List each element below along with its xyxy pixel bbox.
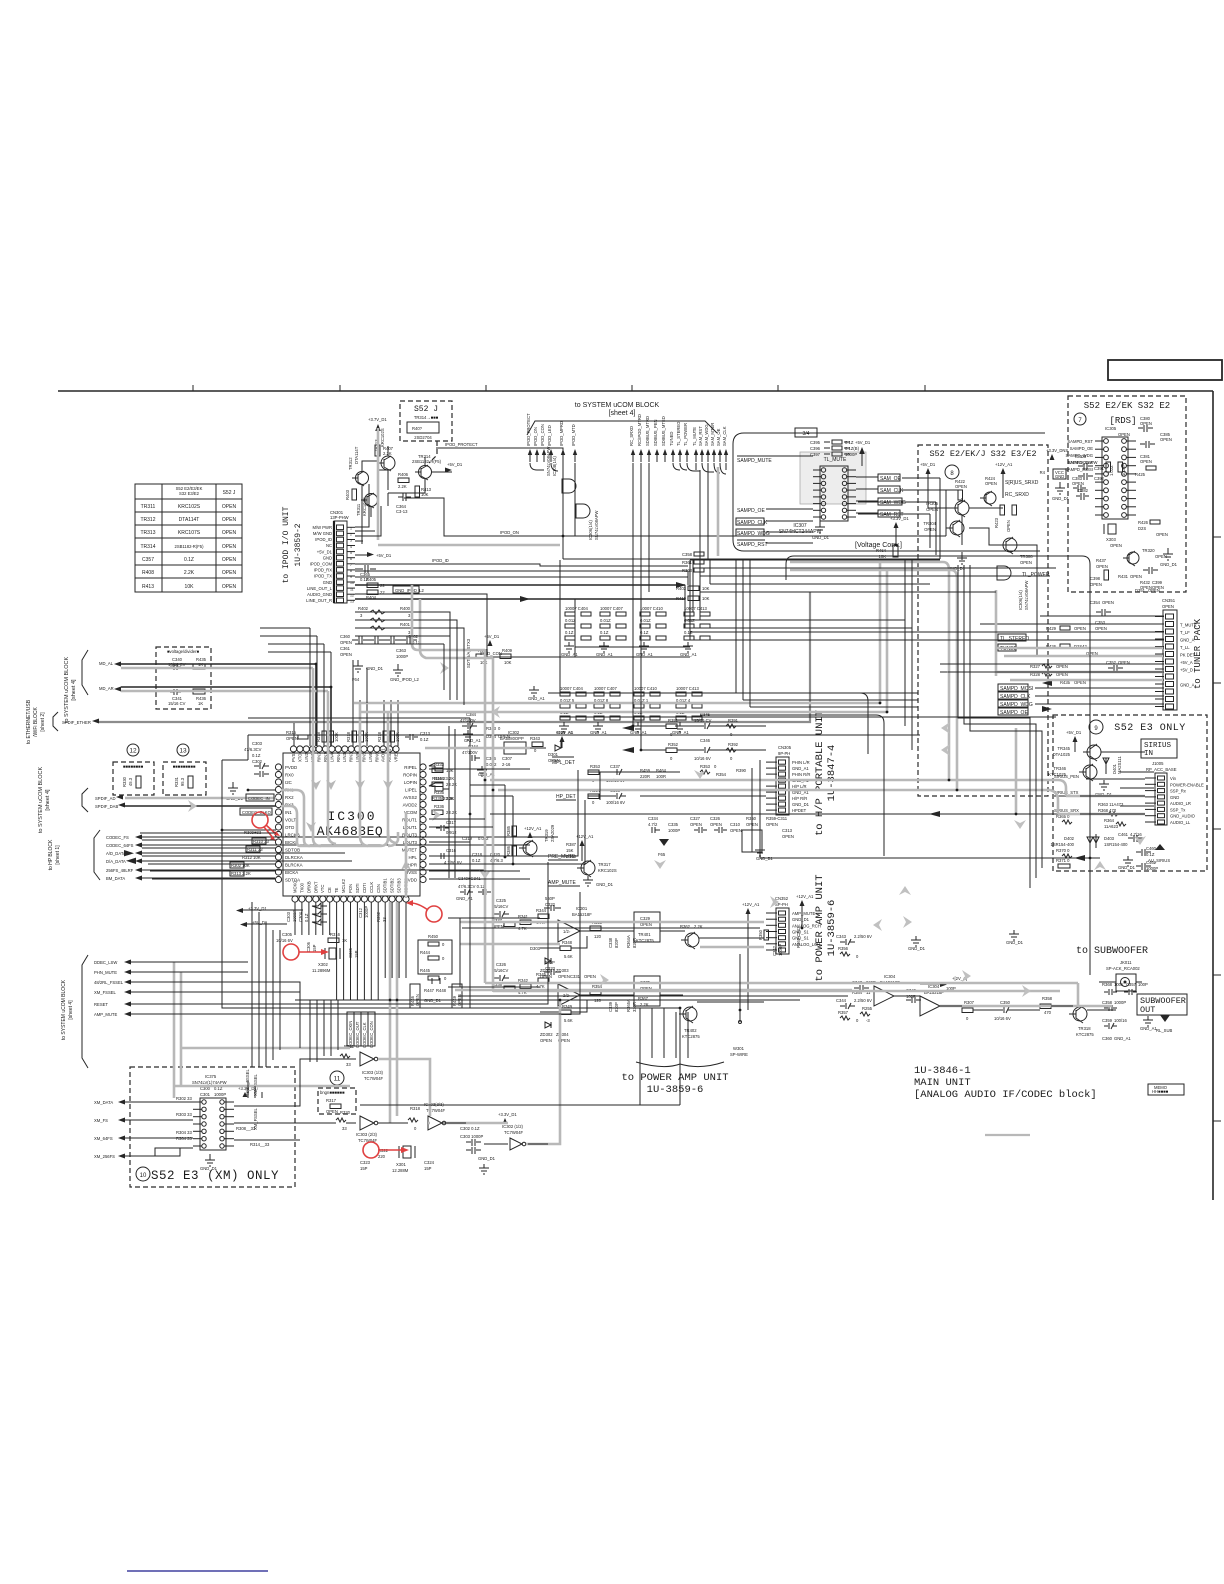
- svg-text:SIRIUS_PEN: SIRIUS_PEN: [1054, 774, 1079, 779]
- dashed option box R330: [113, 762, 154, 795]
- grey from +3.7 rail to right: [378, 544, 560, 547]
- svg-text:[RDS]: [RDS]: [1109, 416, 1136, 426]
- svg-text:OPEN: OPEN: [222, 584, 237, 590]
- +5V_D1 arrow sirius: [1066, 730, 1082, 752]
- svg-text:BICKA: BICKA: [285, 870, 298, 875]
- svg-text:RC/IPOD_MTRD: RC/IPOD_MTRD: [637, 414, 642, 446]
- transistor TR304: [923, 520, 964, 537]
- dashed box S52 E2/EK S32 E2 RDS: [1068, 396, 1186, 592]
- IC300 left pins: [275, 764, 281, 883]
- svg-text:R363: R363: [682, 568, 693, 573]
- svg-text:10007 C410: 10007 C410: [634, 686, 657, 691]
- svg-text:D301: D301: [548, 752, 559, 757]
- svg-text:OPEN: OPEN: [1096, 564, 1108, 569]
- svg-text:GND_A1: GND_A1: [556, 730, 573, 735]
- svg-text:33: 33: [342, 1126, 347, 1131]
- svg-text:GND_A1: GND_A1: [680, 652, 697, 657]
- svg-text:IPOD_ON: IPOD_ON: [533, 427, 538, 446]
- resistor stack right of IC300 R333: [432, 762, 457, 815]
- svg-text:10007 C404: 10007 C404: [560, 686, 583, 691]
- AND gate IC306 1/4: [576, 504, 599, 540]
- caps clusters mid C404 area: [556, 686, 702, 735]
- leads ipod arrow group: [530, 463, 575, 536]
- power amp dark rail pair: [458, 928, 848, 996]
- grey bus: xm area horizontals: [174, 1048, 350, 1086]
- svg-text:R354: R354: [716, 772, 727, 777]
- svg-text:OPEN: OPEN: [222, 504, 237, 510]
- transistor TR313 KRC102S: [374, 428, 395, 471]
- svg-text:DTA114T: DTA114T: [179, 517, 200, 523]
- left callout HP BLOCK sheet1: [48, 830, 142, 881]
- svg-text:R343: R343: [530, 736, 541, 741]
- svg-text:2-16: 2-16: [502, 762, 511, 767]
- curved leads group TUNED..SAM_CLK: [673, 463, 726, 560]
- net label SAMPD_WDG: [736, 529, 770, 537]
- svg-text:VTC: VTC: [320, 885, 325, 893]
- svg-text:48/2RL_FSSEL: 48/2RL_FSSEL: [94, 980, 124, 985]
- svg-text:R343: R343: [486, 726, 497, 731]
- +12V_A1 arrow: [995, 462, 1013, 495]
- svg-text:[sheet 4]: [sheet 4]: [609, 410, 636, 417]
- svg-text:GND_D1: GND_D1: [812, 535, 830, 540]
- text 1U-3846-1 MAIN UNIT: [914, 1065, 1097, 1101]
- svg-text:+3.3V_D1: +3.3V_D1: [890, 516, 909, 521]
- svg-text:ZD304: ZD304: [556, 1032, 569, 1037]
- svg-text:SP-ACK_RCA002: SP-ACK_RCA002: [1106, 966, 1140, 971]
- svg-text:C354: C354: [1090, 600, 1101, 605]
- svg-text:OPEN: OPEN: [1156, 532, 1168, 537]
- svg-text:CCLK: CCLK: [369, 882, 374, 893]
- svg-text:GND_D1: GND_D1: [792, 917, 810, 922]
- net label SAMPD_MUTE: [737, 456, 772, 464]
- verticals joining band: [690, 560, 710, 640]
- svg-text:R464: R464: [876, 548, 887, 553]
- svg-text:R410: R410: [676, 596, 687, 601]
- svg-text:OPEN: OPEN: [222, 557, 237, 563]
- svg-text:LIN6: LIN6: [368, 752, 373, 762]
- svg-text:GND_D1: GND_D1: [792, 802, 810, 807]
- pin number ticks CN301: [350, 527, 354, 604]
- svg-text:C382: C382: [1078, 488, 1089, 493]
- svg-text:10007 C407: 10007 C407: [594, 686, 617, 691]
- svg-text:R400: R400: [400, 606, 411, 611]
- svg-text:SAMPD_RST: SAMPD_RST: [1067, 439, 1093, 444]
- svg-text:2.2K: 2.2K: [383, 451, 392, 456]
- wire SPDIF_AD grey: [125, 797, 276, 800]
- dashed box R317 OPEN: [318, 1088, 356, 1114]
- to IPOD I/O UNIT label: [282, 506, 303, 583]
- svg-text:SDTI: SDTI: [355, 883, 360, 893]
- transistor TR307 circle small: [980, 491, 996, 506]
- svg-text:GND_D1: GND_D1: [1052, 496, 1070, 501]
- R353 C337 row: [588, 764, 747, 783]
- svg-text:OPEN: OPEN: [1140, 459, 1152, 464]
- svg-text:OPEN: OPEN: [1148, 588, 1160, 593]
- svg-text:TL_MUTE: TL_MUTE: [824, 457, 847, 463]
- ground GND_D1 near note boxes: [226, 782, 244, 801]
- svg-text:0.012: 0.012: [486, 762, 497, 767]
- vertical dark pair right top: [930, 478, 946, 559]
- wire right edge drop from table wires: [560, 560, 690, 657]
- svg-text:CODEC_CLK: CODEC_CLK: [362, 1022, 367, 1048]
- svg-text:OPEN: OPEN: [766, 822, 778, 827]
- svg-text:R316: R316: [330, 932, 341, 937]
- wire SPDIF_ETHER: [99, 592, 810, 722]
- horizontals feeding verticals above chip: [260, 628, 331, 652]
- wire 48fs down: [248, 1080, 262, 1098]
- wire LINE_OUT_R long: [355, 598, 685, 600]
- dashed wire from S52J box to TR314: [429, 441, 437, 463]
- svg-text:KTC2875: KTC2875: [636, 938, 654, 943]
- grey bus: amp to CN352 lower pin: [700, 946, 764, 949]
- CODEC rotated net labels under chip: [347, 1012, 375, 1048]
- svg-text:0.1Z: 0.1Z: [420, 737, 429, 742]
- dark feeds from IC307 to right: [858, 478, 946, 514]
- svg-text:0.01Z: 0.01Z: [640, 618, 651, 623]
- wires IPOD_RX / IPOD_TX: [355, 571, 688, 585]
- wires under chip to components: [295, 902, 406, 1000]
- grey chevrons right of hp rows: [941, 722, 950, 756]
- note circle 13: [177, 744, 189, 756]
- svg-text:SAM_CLK: SAM_CLK: [722, 426, 727, 446]
- IC300 bottom pin labels: [293, 878, 409, 893]
- svg-text:NC: NC: [326, 543, 332, 548]
- svg-text:R364: R364: [1104, 818, 1115, 823]
- svg-text:15P: 15P: [424, 1166, 432, 1171]
- caps right of IC300 C317 C319: [436, 820, 503, 901]
- svg-text:+5V_D1: +5V_D1: [376, 553, 392, 558]
- svg-text:C344: C344: [836, 998, 847, 1003]
- black arrows into R351/R352: [622, 725, 634, 753]
- svg-text:D/A_DATA: D/A_DATA: [106, 859, 126, 864]
- svg-text:IC306(1/4): IC306(1/4): [1018, 590, 1023, 610]
- junction dots: [221, 535, 1092, 1012]
- svg-text:GND_S1: GND_S1: [792, 936, 809, 941]
- svg-text:10007 C413: 10007 C413: [684, 606, 707, 611]
- svg-text:W301: W301: [733, 1046, 745, 1051]
- svg-text:1K: 1K: [198, 701, 203, 706]
- svg-text:LOPIN: LOPIN: [404, 780, 417, 785]
- svg-text:CODEC_FS: CODEC_FS: [106, 835, 129, 840]
- svg-text:R304 33: R304 33: [176, 1130, 193, 1135]
- grey riser inside voltage area: [717, 467, 720, 556]
- svg-text:S52 E2/EK/J S32 E3/E2: S52 E2/EK/J S32 E3/E2: [929, 449, 1036, 459]
- R354 120 + caps lower: [590, 984, 637, 1012]
- svg-text:OPEN: OPEN: [498, 734, 510, 739]
- svg-text:IC308(1/4): IC308(1/4): [552, 456, 557, 476]
- wire MD_AR grey shadow: [121, 690, 328, 693]
- svg-text:AUDIO_LL: AUDIO_LL: [1170, 820, 1191, 825]
- svg-text:GND: GND: [323, 580, 332, 585]
- transistor TR346: [1048, 764, 1097, 781]
- svg-text:CN352: CN352: [775, 896, 789, 901]
- svg-text:IPOD_COM: IPOD_COM: [310, 562, 333, 567]
- svg-text:IC306(1/4): IC306(1/4): [588, 520, 593, 540]
- svg-text:1U-3859-6: 1U-3859-6: [826, 900, 838, 957]
- svg-text:C302 0.1Z: C302 0.1Z: [460, 1126, 480, 1131]
- capacitor C364: [396, 493, 411, 514]
- svg-text:OPEN: OPEN: [1074, 626, 1086, 631]
- cap C382: [1076, 488, 1089, 500]
- +3.3V_D1 arrow right: [498, 1112, 517, 1124]
- svg-text:R320: R320: [340, 1110, 351, 1115]
- dashed box S52 E2/EK/J S32 E3/E2: [918, 445, 1048, 796]
- R315 OPEN above chip: [286, 730, 308, 741]
- grey bus: left entries into chip: [281, 790, 310, 846]
- svg-text:DRXB: DRXB: [306, 881, 311, 893]
- svg-text:95.3: 95.3: [180, 777, 185, 786]
- svg-text:C461: C461: [1118, 832, 1129, 837]
- wire band mid-right horizontals: [690, 560, 1056, 592]
- svg-text:470: 470: [1044, 1010, 1052, 1015]
- R316 1K + X302 crystal: [306, 932, 359, 973]
- grey mark line above stamp: [985, 1134, 1030, 1136]
- svg-text:AMP_MUTE: AMP_MUTE: [94, 1012, 117, 1017]
- svg-text:ROPIN: ROPIN: [403, 772, 417, 777]
- wire vertical drop from hp region: [752, 760, 760, 858]
- svg-text:GND: GND: [1055, 474, 1064, 479]
- title block box top right: [1108, 360, 1222, 380]
- CN301 pin wires to transistor cluster: [355, 484, 381, 541]
- svg-text:10007 C413: 10007 C413: [676, 686, 699, 691]
- svg-text:[ANALOG AUDIO IF/CODEC block]: [ANALOG AUDIO IF/CODEC block]: [914, 1089, 1097, 1101]
- svg-text:100K: 100K: [334, 732, 339, 742]
- grey bus: sirius vertical: [1015, 728, 1018, 814]
- dark drop verticals to amp: [505, 785, 513, 864]
- verticals from SAMPD box left edge down: [736, 560, 750, 707]
- parts under TR320: [1090, 558, 1164, 590]
- svg-text:4.7/2: 4.7/2: [648, 822, 658, 827]
- svg-text:IPOD_PROTECT: IPOD_PROTECT: [445, 442, 478, 447]
- svg-text:IPOD_MPRD: IPOD_MPRD: [559, 421, 564, 446]
- svg-text:TC7W04F: TC7W04F: [364, 1076, 384, 1081]
- grey bus: sirius horizontals: [1050, 780, 1145, 814]
- svg-text:15/16CV: 15/16CV: [492, 904, 509, 909]
- wire hp lower joins: [588, 772, 766, 800]
- labels PRE_MUTE AMP_MUTE: [548, 854, 580, 886]
- svg-text:to SYSTEM uCOM BLOCK: to SYSTEM uCOM BLOCK: [575, 402, 660, 409]
- connector CN301 13P: [306, 510, 355, 603]
- svg-text:15/16CV: 15/16CV: [492, 968, 509, 973]
- svg-text:C398: C398: [1090, 576, 1101, 581]
- R408 R409 10K pair above chip: [466, 634, 513, 668]
- svg-text:100/16: 100/16: [1114, 1018, 1127, 1023]
- RDS signal labels: [1065, 439, 1093, 472]
- svg-text:R361: R361: [682, 560, 693, 565]
- resistor R403: [345, 489, 357, 500]
- svg-text:15P: 15P: [360, 1166, 368, 1171]
- caps row under chip C303/C304: [286, 903, 327, 925]
- svg-text:ROUT1: ROUT1: [402, 817, 417, 822]
- transistor TR312 DTA114T: [348, 446, 369, 486]
- svg-text:OPEN: OPEN: [1090, 582, 1102, 587]
- svg-text:C334: C334: [648, 816, 659, 821]
- svg-text:IPOD_PROTECT: IPOD_PROTECT: [526, 413, 531, 446]
- svg-text:C326: C326: [496, 962, 507, 967]
- parts table: [135, 484, 242, 592]
- IC300 right pins: [420, 764, 426, 883]
- svg-text:KRC102S: KRC102S: [362, 497, 367, 516]
- wire MD_AR: [121, 687, 331, 746]
- svg-text:GND_A1: GND_A1: [1114, 1036, 1131, 1041]
- power amp output vertical bundle: [640, 1008, 688, 1058]
- grey bus: right riser to ROUT pins: [388, 832, 398, 846]
- svg-text:1U-3847-4: 1U-3847-4: [826, 745, 838, 802]
- capacitor clusters C404-C415 row1: [561, 606, 710, 657]
- svg-text:C337: C337: [610, 764, 621, 769]
- svg-text:C339: C339: [608, 1001, 613, 1012]
- svg-text:1000P: 1000P: [1146, 866, 1158, 871]
- ground AU_SIRIUS: [1148, 844, 1170, 863]
- svg-text:to ETHERNET/USB: to ETHERNET/USB: [26, 699, 32, 744]
- svg-text:R364A: R364A: [626, 935, 631, 948]
- svg-text:X303: X303: [1106, 537, 1116, 542]
- svg-text:R336: R336: [434, 804, 445, 809]
- power rail loop around IC300: [222, 735, 920, 1008]
- R354 C336 row: [556, 788, 626, 805]
- svg-text:PON: PON: [348, 884, 353, 893]
- svg-text:XTO: XTO: [297, 753, 302, 762]
- circled 11: [330, 1071, 344, 1085]
- svg-text:F65: F65: [658, 852, 666, 857]
- svg-text:5: 5: [350, 551, 352, 555]
- svg-text:C358: C358: [1102, 1000, 1113, 1005]
- svg-text:GND_A1: GND_A1: [596, 652, 613, 657]
- svg-text:C313: C313: [782, 828, 793, 833]
- signal arrows bundle with rotated labels: [526, 413, 728, 462]
- extra step wires top center: [575, 599, 690, 647]
- svg-text:R390: R390: [736, 768, 747, 773]
- svg-text:TR402: TR402: [684, 1028, 697, 1033]
- resistor R364: [1104, 818, 1126, 829]
- inverter IC303 2/3: [336, 1110, 378, 1143]
- svg-text:[sheet 4]: [sheet 4]: [68, 1000, 74, 1020]
- R423 R425 vertical resistors: [994, 505, 1017, 532]
- container corner top left: [786, 556, 794, 580]
- svg-text:R327: R327: [1030, 664, 1041, 669]
- svg-text:OPEN: OPEN: [1102, 600, 1114, 605]
- svg-text:DLRCKA: DLRCKA: [285, 855, 303, 860]
- svg-text:TC7W04F: TC7W04F: [504, 1130, 524, 1135]
- label 3/4 box: [795, 428, 817, 437]
- svg-text:OPEN: OPEN: [222, 544, 237, 550]
- svg-text:TE: TE: [334, 887, 339, 893]
- svg-text:R431: R431: [1118, 574, 1129, 579]
- svg-text:R314__33: R314__33: [250, 1142, 270, 1147]
- svg-text:10K: 10K: [185, 584, 195, 590]
- svg-text:PHIN R/R: PHIN R/R: [792, 772, 810, 777]
- svg-text:TX00: TX00: [299, 882, 304, 893]
- svg-text:12: 12: [350, 593, 354, 597]
- svg-text:TR314: TR314: [140, 544, 155, 550]
- IC375: [176, 1074, 270, 1150]
- svg-text:OPEN: OPEN: [782, 834, 794, 839]
- svg-text:CODEC_64FS: CODEC_64FS: [106, 843, 134, 848]
- analog container outline: [794, 556, 1090, 975]
- wire MD_AL grey shadow: [121, 667, 313, 670]
- svg-text:GND_S1: GND_S1: [792, 930, 809, 935]
- svg-text:GND_AUDIO: GND_AUDIO: [1170, 814, 1196, 819]
- svg-text:SDIBUS_PEN: SDIBUS_PEN: [653, 419, 658, 446]
- svg-text:SPDIF_DAB: SPDIF_DAB: [95, 804, 118, 809]
- svg-text:10K: 10K: [702, 596, 710, 601]
- wire IPOD_ID: [355, 558, 688, 566]
- C302 C303 caps left of chip: [244, 741, 269, 777]
- resistor ladder below CN301: [355, 606, 415, 635]
- svg-text:R344: R344: [536, 908, 547, 913]
- resistor cluster R318/R319 above chip: [316, 731, 431, 742]
- wire xm outputs: [234, 1059, 356, 1140]
- grey bus: chip internal vertical 1: [313, 668, 321, 846]
- caps cluster under hp: [648, 816, 794, 861]
- red circle X302: [283, 944, 329, 960]
- svg-text:R371 0: R371 0: [1056, 858, 1070, 863]
- svg-text:OPEN: OPEN: [1130, 574, 1142, 579]
- svg-text:CN305: CN305: [778, 745, 792, 750]
- svg-text:GND_D1: GND_D1: [478, 1156, 496, 1161]
- svg-text:10: 10: [350, 581, 354, 585]
- svg-text:RIN4: RIN4: [336, 752, 341, 762]
- grey bus: center ring horizontals above chip: [354, 703, 887, 712]
- svg-text:0.1Z: 0.1Z: [472, 858, 481, 863]
- svg-text:2.2/50 6V: 2.2/50 6V: [854, 934, 872, 939]
- svg-text:LIN2: LIN2: [304, 752, 309, 762]
- svg-text:SAMPD_RST: SAMPD_RST: [737, 542, 768, 548]
- connector CN305 H/P: [766, 745, 810, 815]
- AND gate IC308 1/4: [546, 446, 576, 493]
- svg-text:0.1Z: 0.1Z: [252, 753, 261, 758]
- R370 resistor: [1056, 848, 1072, 858]
- svg-text:R405: R405: [366, 577, 377, 582]
- svg-text:SAM_RST: SAM_RST: [698, 426, 703, 446]
- svg-text:1/2◦: 1/2◦: [563, 929, 571, 934]
- voltage divider dashed box (C340/R435): [156, 647, 211, 709]
- feedback R349 5.6K lower: [540, 1000, 587, 1043]
- svg-text:R359-C311: R359-C311: [766, 816, 788, 821]
- svg-text:C360: C360: [340, 634, 351, 639]
- svg-text:R445: R445: [420, 968, 431, 973]
- svg-text:SAMPD_MUTE: SAMPD_MUTE: [737, 458, 772, 464]
- svg-text:C396: C396: [810, 446, 821, 451]
- svg-text:MD_AL: MD_AL: [99, 661, 114, 666]
- resistor R363: [1098, 802, 1124, 816]
- svg-text:C323: C323: [360, 1160, 371, 1165]
- svg-text:11A623: 11A623: [1104, 824, 1119, 829]
- svg-text:GND_A1: GND_A1: [672, 730, 689, 735]
- svg-text:KRC102S: KRC102S: [178, 504, 201, 510]
- svg-text:0.012: 0.012: [478, 836, 489, 841]
- caps under IC302: [462, 744, 513, 777]
- svg-text:S52 E2/EK S32 E2: S52 E2/EK S32 E2: [1084, 401, 1170, 411]
- svg-text:R391: R391: [728, 718, 739, 723]
- svg-text:DDBC_LSW: DDBC_LSW: [94, 960, 117, 965]
- svg-text:GND_D1: GND_D1: [200, 1166, 218, 1171]
- svg-text:IC303 (1/3): IC303 (1/3): [362, 1070, 384, 1075]
- svg-text:3/4: 3/4: [803, 431, 810, 437]
- svg-text:2SD2704: 2SD2704: [414, 435, 432, 440]
- arrowheads on line out: [520, 582, 686, 602]
- power arrow +3.7V_D1: [368, 417, 387, 445]
- svg-text:1: 1: [350, 527, 352, 531]
- grey bus: right side vertical out of chip bottom: [405, 812, 408, 898]
- net label SAMPD_RST: [737, 540, 768, 548]
- wire sirius connector feeds: [1080, 752, 1154, 814]
- svg-text:GND_D1: GND_D1: [1006, 940, 1024, 945]
- wire LINE_OUT_L long: [355, 584, 685, 586]
- resistor R405 R404: [366, 577, 385, 600]
- svg-text:10007 C410: 10007 C410: [640, 606, 663, 611]
- svg-text:AU_SIRIUS: AU_SIRIUS: [1148, 858, 1170, 863]
